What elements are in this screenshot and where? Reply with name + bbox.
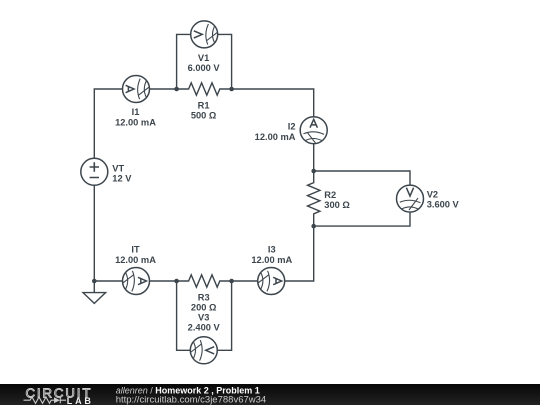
- ammeter I2: [300, 117, 327, 144]
- footer bar: [0, 384, 540, 405]
- junction node B (231.6,89): [229, 87, 234, 92]
- svg-text:2.400 V: 2.400 V: [188, 323, 221, 333]
- resistor R3: [177, 275, 232, 287]
- svg-text:http://circuitlab.com/c3je788v: http://circuitlab.com/c3je788v67w34: [116, 395, 267, 405]
- wire V3 left branch: [177, 281, 191, 350]
- svg-text:R1: R1: [198, 101, 210, 111]
- wire IT left to ground node: [94, 280, 122, 282]
- svg-text:6.000 V: 6.000 V: [188, 63, 221, 73]
- svg-text:LAB: LAB: [67, 396, 94, 405]
- wire node B to top-right corner to I2 top: [232, 89, 314, 117]
- svg-text:IT: IT: [131, 245, 140, 255]
- R3 value label: [191, 293, 217, 313]
- svg-text:12.00 mA: 12.00 mA: [251, 255, 292, 265]
- R2 value label: [324, 190, 350, 210]
- voltmeter V3: [190, 337, 217, 364]
- junction node E (231.6,281): [229, 279, 234, 284]
- resistor R1: [177, 83, 232, 95]
- junction node D (313.7,226.1): [311, 224, 316, 229]
- V3 value label: [188, 313, 221, 333]
- wire node F to IT right: [150, 280, 177, 282]
- voltmeter V2: [397, 185, 424, 212]
- logo squiggle resistor and diode: [24, 397, 67, 403]
- junction node A (176.6,89): [174, 87, 179, 92]
- svg-text:I2: I2: [288, 122, 296, 132]
- svg-text:12.00 mA: 12.00 mA: [115, 255, 156, 265]
- svg-text:300 Ω: 300 Ω: [324, 200, 350, 210]
- I2 value label: [255, 122, 296, 142]
- svg-text:R3: R3: [198, 293, 210, 303]
- svg-text:12.00 mA: 12.00 mA: [115, 117, 156, 127]
- wire I1 right to node A: [150, 88, 177, 90]
- junction ground node (94.3,281): [92, 279, 97, 284]
- wire V1 right branch: [218, 34, 232, 89]
- ammeter IT: [123, 268, 150, 295]
- voltage source VT: [81, 158, 108, 185]
- svg-text:500 Ω: 500 Ω: [191, 111, 217, 121]
- svg-text:I3: I3: [268, 245, 276, 255]
- wire ground node up to VT bottom: [93, 185, 95, 281]
- ammeter I3: [258, 268, 285, 295]
- V2 value label: [427, 189, 460, 209]
- resistor R2: [308, 171, 320, 226]
- VT value label: [112, 163, 132, 183]
- IT value label: [115, 245, 156, 265]
- svg-text:R2: R2: [324, 190, 336, 200]
- svg-text:V3: V3: [198, 313, 209, 323]
- svg-text:V2: V2: [427, 189, 438, 199]
- ammeter I1: [123, 76, 150, 103]
- svg-text:12.00 mA: 12.00 mA: [255, 132, 296, 142]
- wire node C to V2 top: [314, 171, 410, 185]
- wire V3 right branch: [217, 281, 231, 350]
- I3 value label: [251, 245, 292, 265]
- wire V2 bottom to node D: [314, 212, 410, 226]
- R1 value label: [191, 101, 217, 121]
- svg-text:V1: V1: [198, 53, 209, 63]
- svg-text:VT: VT: [112, 163, 124, 173]
- I1 value label: [115, 107, 156, 127]
- wire V1 left branch: [177, 34, 191, 89]
- ground: [83, 281, 106, 303]
- wire I2 bottom to node C: [313, 144, 315, 171]
- junction node C (313.7,171): [311, 169, 316, 174]
- wire top-left: VT top to corner to I1 left: [94, 89, 122, 158]
- svg-text:12 V: 12 V: [112, 174, 132, 184]
- wire node D down to bottom-right corner to I3 right: [285, 226, 314, 281]
- svg-text:200 Ω: 200 Ω: [191, 303, 217, 313]
- wire I3 left to node E: [232, 280, 258, 282]
- V1 value label: [188, 53, 221, 73]
- junction node F (176.6,281): [174, 279, 179, 284]
- voltmeter V1: [191, 21, 218, 48]
- svg-text:I1: I1: [132, 107, 140, 117]
- svg-text:3.600 V: 3.600 V: [427, 200, 460, 210]
